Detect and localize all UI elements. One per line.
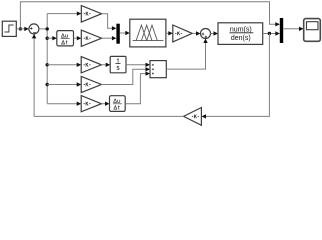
wire gain G3 to sum S2 xyxy=(192,32,197,34)
gain G6 -K- xyxy=(81,96,101,112)
wire gain G5 to sumblock input 2 xyxy=(101,69,146,84)
gain G5 -K- xyxy=(81,76,101,92)
wire step to sum S1 xyxy=(16,28,27,30)
node bus junction row2 xyxy=(46,37,49,40)
wire bus to gain G5 (row 4) xyxy=(47,84,77,86)
step source block xyxy=(2,21,16,36)
transfer function block num(s)/den(s) xyxy=(218,23,263,45)
wire plant output to junction and mux M2 input 2 xyxy=(263,33,277,35)
wire mux M1 to fuzzy controller xyxy=(120,32,127,34)
wire bus to gain G6 (row 5) xyxy=(47,103,77,105)
wire gain G7 output to sum S1 bottom input xyxy=(34,38,184,117)
derivative block D1 (du/dt) xyxy=(57,31,74,46)
wire reference branch: junction up, across top, down to mux M2 input 1 xyxy=(20,2,276,29)
node bus junction row4 xyxy=(46,83,49,86)
wire sum block S3 to sum S2 bottom input xyxy=(166,42,205,69)
wire gain G6 to derivative D2 xyxy=(101,103,105,105)
wire gain G4 to integrator xyxy=(101,64,106,66)
sum S2 (+ +) xyxy=(201,29,211,39)
fuzzy logic controller U1 xyxy=(130,19,166,47)
mux M2 xyxy=(280,18,283,43)
gain G4 -K- xyxy=(81,57,101,73)
wire sum S2 to transfer fcn xyxy=(211,33,215,35)
wire fuzzy to gain G3 xyxy=(166,32,169,34)
wire sum S1 output to error bus xyxy=(39,28,47,30)
svg-text:den(s): den(s) xyxy=(231,35,251,42)
node bus junction row1 xyxy=(46,27,49,30)
sum block S3 (rectangular, + + +) xyxy=(150,61,166,78)
wire derivative D2 to sumblock input 3 xyxy=(125,74,146,104)
wire bus to derivative D1 xyxy=(47,37,53,39)
wire gain G1 to mux M1 input 1 xyxy=(102,14,113,29)
wire integrator to sumblock input 1 xyxy=(126,64,146,66)
wire D1 to gain G2 xyxy=(74,37,78,39)
wire error bus vertical xyxy=(46,14,48,29)
scope block xyxy=(304,19,321,42)
node junction on step output xyxy=(19,27,22,30)
gain G3 -K- xyxy=(173,25,192,42)
gain G2 -K- xyxy=(81,30,101,46)
sum S1 (+ -) xyxy=(29,24,39,34)
derivative block D2 (du/dt) xyxy=(110,96,126,112)
gain G7 feedback -K- (points left) xyxy=(184,108,202,126)
wire mux M2 to scope xyxy=(283,28,300,30)
node plant output junction xyxy=(268,32,271,35)
integrator block 1/s xyxy=(110,56,126,72)
node bus junction row3 xyxy=(46,63,49,66)
wire bus to gain G4 (row 3) xyxy=(47,64,77,66)
wire bus to gain G1 xyxy=(47,13,77,15)
wire feedback drop to bottom rail xyxy=(205,34,269,117)
mux M1 xyxy=(116,24,119,44)
gain G1 -K- xyxy=(81,6,101,23)
wire gain G2 to mux M1 input 2 xyxy=(102,37,113,39)
